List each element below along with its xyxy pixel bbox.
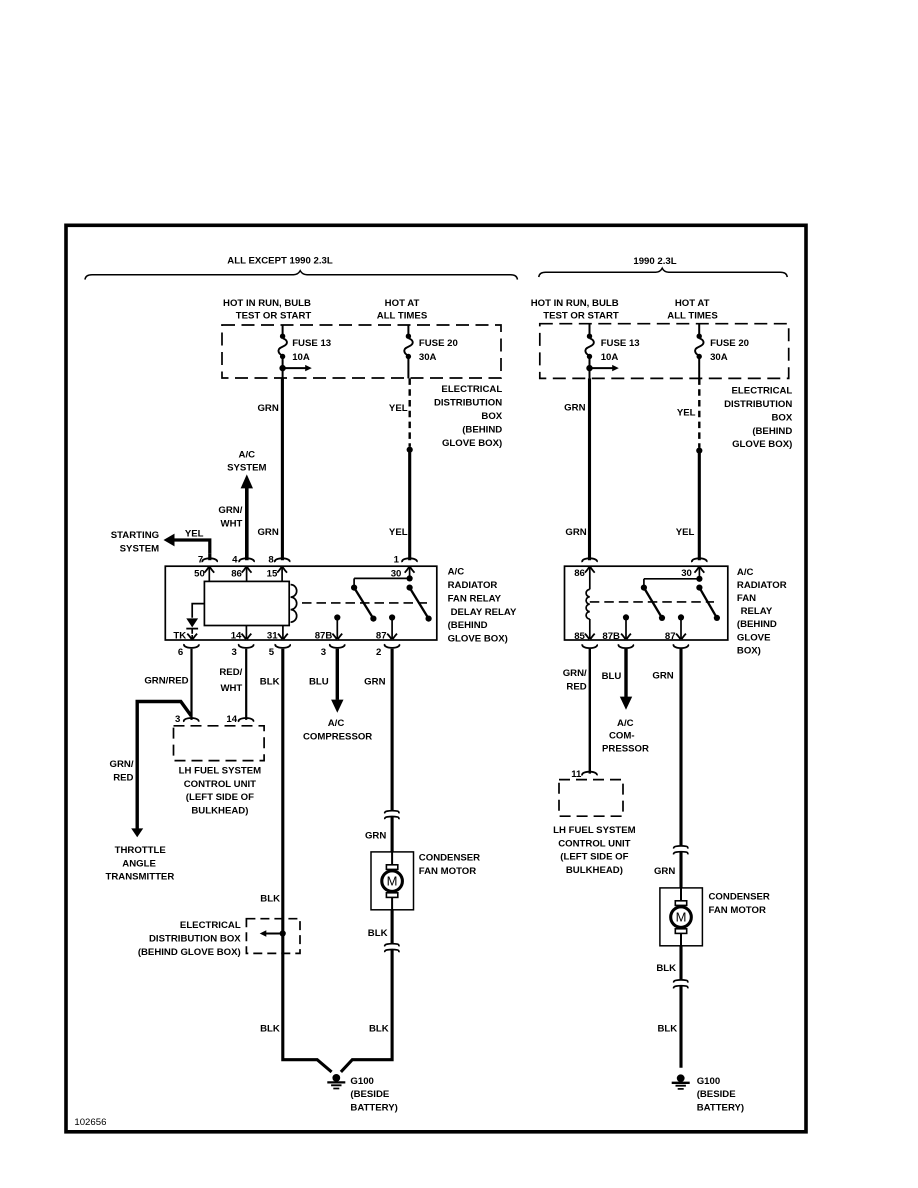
wire: fuse 20 to box edge (right) bbox=[698, 357, 700, 379]
relay coil windings (left relay) bbox=[291, 585, 297, 623]
switch blade 1 end node (right relay) bbox=[659, 615, 665, 621]
wire GRN: fuse 13 to relay pin 86 (right) bbox=[588, 378, 591, 560]
svg-text:BLK: BLK bbox=[369, 1023, 389, 1034]
svg-text:M: M bbox=[676, 910, 687, 925]
svg-text:GRN: GRN bbox=[365, 831, 386, 842]
svg-text:8: 8 bbox=[268, 554, 274, 565]
connector pin 8 (left relay) bbox=[275, 558, 290, 562]
svg-text:ELECTRICAL: ELECTRICAL bbox=[441, 384, 502, 395]
svg-text:30A: 30A bbox=[419, 352, 437, 363]
svg-text:(BEHIND: (BEHIND bbox=[462, 424, 502, 435]
label: FUSE 20 30A (right) bbox=[710, 338, 749, 363]
wire BLK: motor to connector (right) bbox=[679, 946, 682, 980]
wire: junction to box edge (left) bbox=[282, 368, 284, 378]
svg-text:BLK: BLK bbox=[657, 1023, 677, 1034]
svg-text:FUSE 13: FUSE 13 bbox=[292, 338, 331, 349]
svg-text:86: 86 bbox=[231, 569, 242, 580]
wire tap arrow at fuse 13 (left) bbox=[283, 365, 312, 371]
svg-text:HOT IN RUN, BULB: HOT IN RUN, BULB bbox=[531, 298, 619, 309]
wire: feed into fuse 20 (right) bbox=[698, 324, 700, 336]
fuse FUSE 20 30A (right) bbox=[695, 334, 703, 360]
svg-text:A/C: A/C bbox=[737, 567, 754, 578]
splice: YEL wire (right) bbox=[696, 448, 702, 454]
inline connector on GRN wire (left) bbox=[385, 811, 399, 820]
svg-text:GRN/RED: GRN/RED bbox=[144, 676, 188, 687]
connector pin 3 (below left relay, 87B) bbox=[330, 644, 345, 648]
svg-text:5: 5 bbox=[269, 647, 275, 658]
svg-text:M: M bbox=[387, 874, 398, 889]
svg-text:SYSTEM: SYSTEM bbox=[227, 463, 266, 474]
pin 50 arrow (left relay) bbox=[204, 567, 214, 581]
svg-text:GRN: GRN bbox=[364, 676, 385, 687]
svg-text:7: 7 bbox=[198, 554, 203, 565]
svg-text:BLK: BLK bbox=[656, 963, 676, 974]
label: G100 (BESIDE BATTERY) (right) bbox=[697, 1076, 744, 1114]
wire GRN/RED: pin 85 to control unit (right) bbox=[589, 649, 591, 774]
connector pin 2 (below left relay) bbox=[385, 644, 400, 648]
pin 87 arrow (right relay) bbox=[676, 617, 686, 639]
svg-text:DELAY RELAY: DELAY RELAY bbox=[451, 607, 517, 618]
connector below pin 87 (right relay) bbox=[674, 644, 689, 648]
svg-text:BULKHEAD): BULKHEAD) bbox=[566, 865, 623, 876]
relay coil box (left relay) bbox=[204, 581, 289, 625]
svg-text:A/C: A/C bbox=[617, 718, 634, 729]
svg-text:A/C: A/C bbox=[239, 449, 256, 460]
svg-text:SYSTEM: SYSTEM bbox=[120, 544, 159, 555]
switch blade 2 end node bbox=[426, 616, 432, 622]
switch contact node (right relay, blade 2 top) bbox=[696, 585, 702, 591]
svg-text:RED/: RED/ bbox=[219, 667, 242, 678]
label: GRN/ RED (left branch) bbox=[110, 759, 134, 784]
pin 30 arrow (right relay) bbox=[695, 567, 705, 579]
junction on pin 30 wire (left relay) bbox=[407, 575, 413, 581]
wire BLU arrow to A/C compressor (right) bbox=[620, 649, 632, 710]
svg-text:14: 14 bbox=[226, 714, 237, 725]
svg-text:GRN: GRN bbox=[257, 403, 278, 414]
switch contact node (left relay, blade 1 top) bbox=[351, 585, 357, 591]
switch blade 1 (right relay) bbox=[644, 588, 662, 618]
svg-text:GRN/: GRN/ bbox=[218, 505, 242, 516]
wire YEL: splice to relay pin 1 (left) bbox=[408, 450, 411, 561]
svg-text:85: 85 bbox=[574, 631, 585, 642]
fuse FUSE 20 30A (left) bbox=[404, 334, 412, 360]
LH fuel system control unit box (left, dashed) bbox=[174, 726, 265, 761]
svg-text:DISTRIBUTION: DISTRIBUTION bbox=[434, 398, 502, 409]
svg-text:50: 50 bbox=[194, 569, 205, 580]
splice: YEL wire (left) bbox=[407, 447, 413, 453]
svg-text:G100: G100 bbox=[350, 1076, 373, 1087]
arrow wire GRN/WHT to A/C system (left) bbox=[241, 474, 253, 560]
node label: HOT AT ALL TIMES (right) bbox=[667, 298, 718, 322]
svg-text:TEST OR START: TEST OR START bbox=[543, 311, 619, 322]
junction in lower distribution box (left) bbox=[280, 930, 286, 936]
wire YEL dashed: fuse 20 down (left) bbox=[409, 378, 411, 446]
svg-text:1990 2.3L: 1990 2.3L bbox=[633, 256, 676, 267]
electrical distribution box (left lower, dashed) bbox=[246, 919, 300, 954]
label: THROTTLE ANGLE TRANSMITTER bbox=[106, 845, 175, 883]
label: A/C COMPRESSOR (left) bbox=[303, 718, 372, 742]
connector pin 3 (LH control unit left) bbox=[184, 718, 199, 722]
svg-text:FAN RELAY: FAN RELAY bbox=[448, 593, 502, 604]
svg-text:FUSE 20: FUSE 20 bbox=[419, 338, 458, 349]
connector pin 5 (below left relay) bbox=[275, 644, 290, 648]
svg-text:FUSE 13: FUSE 13 bbox=[601, 338, 640, 349]
svg-text:11: 11 bbox=[571, 769, 582, 780]
svg-text:ELECTRICAL: ELECTRICAL bbox=[732, 386, 793, 397]
label: ELECTRICAL DISTRIBUTION BOX (BEHIND GLOVE BOX) (right) bbox=[724, 386, 793, 451]
wire BLK: connector to ground (right) bbox=[679, 986, 682, 1068]
wire GRN/RED branch to throttle angle transmitter (left) bbox=[131, 702, 191, 838]
svg-text:2: 2 bbox=[376, 647, 381, 658]
svg-text:1: 1 bbox=[394, 554, 400, 565]
relay coil (right relay) bbox=[586, 589, 590, 619]
svg-text:A/C: A/C bbox=[448, 567, 465, 578]
svg-text:GRN/: GRN/ bbox=[110, 759, 134, 770]
svg-text:DISTRIBUTION: DISTRIBUTION bbox=[724, 399, 792, 410]
wire GRN: connector to motor (left) bbox=[391, 817, 394, 852]
svg-text:GLOVE BOX): GLOVE BOX) bbox=[442, 438, 502, 449]
svg-text:(BEHIND GLOVE BOX): (BEHIND GLOVE BOX) bbox=[138, 947, 241, 958]
svg-text:3: 3 bbox=[175, 714, 180, 725]
svg-text:CONTROL UNIT: CONTROL UNIT bbox=[184, 779, 256, 790]
bracket: left diagram brace bbox=[85, 271, 517, 280]
ground G100 (left) bbox=[327, 1074, 345, 1089]
wire BLK: connector to ground elbow (left) bbox=[341, 950, 392, 1072]
svg-text:PRESSOR: PRESSOR bbox=[602, 743, 649, 754]
inline connector on GRN wire (right) bbox=[674, 846, 688, 855]
svg-text:(BEHIND: (BEHIND bbox=[737, 619, 777, 630]
svg-text:GLOVE BOX): GLOVE BOX) bbox=[732, 439, 792, 450]
svg-text:CONDENSER: CONDENSER bbox=[419, 853, 480, 864]
svg-text:RED: RED bbox=[566, 681, 586, 692]
svg-text:BLU: BLU bbox=[602, 671, 622, 682]
label: A/C COM- PRESSOR (right) bbox=[602, 718, 649, 754]
svg-text:HOT AT: HOT AT bbox=[675, 298, 710, 309]
svg-text:COMPRESSOR: COMPRESSOR bbox=[303, 731, 372, 742]
node label: HOT AT ALL TIMES (left) bbox=[377, 298, 428, 322]
contact 87 node (right relay) bbox=[678, 614, 684, 620]
svg-text:BATTERY): BATTERY) bbox=[350, 1103, 397, 1114]
svg-text:BLK: BLK bbox=[368, 928, 388, 939]
svg-text:FUSE 20: FUSE 20 bbox=[710, 338, 749, 349]
svg-text:30: 30 bbox=[681, 568, 692, 579]
svg-text:87B: 87B bbox=[602, 631, 620, 642]
contact 87B node (right relay) bbox=[623, 614, 629, 620]
junction: fuse 13 output (left) bbox=[279, 365, 285, 371]
wire: junction to box edge (right) bbox=[589, 368, 591, 378]
svg-text:WHT: WHT bbox=[221, 519, 243, 530]
svg-text:ALL EXCEPT 1990 2.3L: ALL EXCEPT 1990 2.3L bbox=[227, 255, 333, 266]
svg-text:3: 3 bbox=[321, 647, 326, 658]
label: GRN/ RED (right) bbox=[563, 668, 587, 693]
svg-text:THROTTLE: THROTTLE bbox=[115, 845, 167, 856]
wire tap arrow at fuse 13 (right) bbox=[590, 365, 619, 371]
inline connector on BLK wire (right) bbox=[674, 980, 688, 989]
inline connector on BLK wire (left) bbox=[385, 944, 399, 953]
svg-text:6: 6 bbox=[178, 647, 183, 658]
wire: switch feed bar (right relay) bbox=[644, 579, 700, 586]
connector pin 4 (left relay) bbox=[239, 558, 254, 562]
svg-text:GRN: GRN bbox=[564, 403, 585, 414]
svg-text:YEL: YEL bbox=[389, 527, 408, 538]
wire GRN: connector to motor (right) bbox=[679, 852, 682, 888]
bracket: right diagram brace bbox=[539, 268, 787, 277]
label: ELECTRICAL DISTRIBUTION BOX (BEHIND GLOVE BOX) (left) bbox=[434, 384, 503, 449]
wire GRN/RED: pin 6 to control unit (left) bbox=[190, 649, 192, 720]
contact 87 node (left relay) bbox=[389, 614, 395, 620]
svg-text:YEL: YEL bbox=[677, 408, 696, 419]
svg-text:GRN/: GRN/ bbox=[563, 668, 587, 679]
svg-text:BOX: BOX bbox=[481, 411, 502, 422]
svg-text:87: 87 bbox=[376, 631, 387, 642]
fuse FUSE 13 10A (left) bbox=[278, 334, 286, 360]
switch blade 2 (left relay) bbox=[410, 588, 429, 619]
node label: HOT IN RUN, BULB TEST OR START (left) bbox=[223, 298, 311, 322]
svg-text:GLOVE BOX): GLOVE BOX) bbox=[448, 634, 508, 645]
label: CONDENSER FAN MOTOR (left) bbox=[419, 853, 480, 877]
wire GRN: pin 2 down to connector (left) bbox=[391, 649, 394, 811]
svg-text:CONDENSER: CONDENSER bbox=[709, 892, 770, 903]
svg-text:YEL: YEL bbox=[389, 403, 408, 414]
relay K-left: A/C radiator fan relay delay relay box bbox=[165, 566, 437, 640]
svg-text:CONTROL UNIT: CONTROL UNIT bbox=[558, 838, 630, 849]
connector pin 6 (below left relay) bbox=[184, 644, 199, 648]
label: CONDENSER FAN MOTOR (right) bbox=[709, 892, 770, 916]
node label: HOT IN RUN, BULB TEST OR START (right) bbox=[531, 298, 619, 322]
pin 15 arrow (left relay) bbox=[277, 567, 287, 581]
junction on pin 30 wire (right relay) bbox=[696, 576, 702, 582]
connector pin 11 (LH control unit right) bbox=[582, 772, 597, 776]
svg-text:BLU: BLU bbox=[309, 676, 329, 687]
label: A/C SYSTEM (left) bbox=[227, 449, 266, 473]
svg-text:RADIATOR: RADIATOR bbox=[448, 580, 498, 591]
switch contact node (right relay, blade 1 top) bbox=[641, 585, 647, 591]
junction: fuse 13 output (right) bbox=[586, 365, 592, 371]
svg-text:(BEHIND: (BEHIND bbox=[752, 426, 792, 437]
connector at pin 86 (right relay) bbox=[582, 558, 597, 562]
wire BLK: pin 5 down to ground elbow (left) bbox=[283, 649, 332, 1072]
svg-text:GRN: GRN bbox=[654, 866, 675, 877]
label: A/C RADIATOR FAN RELAY (BEHIND GLOVE BOX) (right) bbox=[737, 567, 787, 656]
LH fuel system control unit box (right, dashed) bbox=[559, 780, 623, 817]
svg-text:ELECTRICAL: ELECTRICAL bbox=[180, 920, 241, 931]
svg-text:15: 15 bbox=[267, 569, 278, 580]
wire: switch feed bar (left relay) bbox=[354, 578, 410, 585]
label: G100 (BESIDE BATTERY) (left) bbox=[350, 1076, 397, 1114]
connector pin 7 (left relay) bbox=[202, 558, 217, 562]
connector pin 3 (below left relay) bbox=[239, 644, 254, 648]
svg-text:BOX: BOX bbox=[772, 412, 793, 423]
label: GRN/ WHT (left) bbox=[218, 505, 242, 529]
label: FUSE 13 10A (left) bbox=[292, 338, 331, 363]
svg-text:RED: RED bbox=[113, 772, 133, 783]
label: LH FUEL SYSTEM CONTROL UNIT (LEFT SIDE OF BULKHEAD) (left) bbox=[179, 765, 261, 816]
svg-text:10A: 10A bbox=[601, 352, 619, 363]
switch blade 1 (left relay) bbox=[354, 588, 373, 619]
contact 87B node (left relay) bbox=[334, 614, 340, 620]
svg-text:RADIATOR: RADIATOR bbox=[737, 580, 787, 591]
svg-text:BLK: BLK bbox=[260, 1023, 280, 1034]
label: FUSE 13 10A (right) bbox=[601, 338, 640, 363]
svg-text:102656: 102656 bbox=[74, 1117, 106, 1128]
svg-text:BOX): BOX) bbox=[737, 645, 761, 656]
wire: coil to diode (left relay) bbox=[192, 604, 204, 618]
pin 85 arrow (right relay) bbox=[585, 619, 595, 639]
svg-text:G100: G100 bbox=[697, 1076, 720, 1087]
wire BLK: motor to connector (left) bbox=[391, 910, 394, 943]
svg-text:TK: TK bbox=[173, 631, 186, 642]
svg-text:BLK: BLK bbox=[260, 676, 280, 687]
wire BLU arrow to A/C compressor (left) bbox=[331, 649, 343, 713]
svg-text:86: 86 bbox=[574, 568, 585, 579]
pin 86 arrow (left relay) bbox=[242, 567, 252, 581]
wire: feed into fuse 13 (left) bbox=[282, 325, 284, 336]
fuse FUSE 13 10A (right) bbox=[585, 334, 593, 360]
svg-text:(LEFT SIDE OF: (LEFT SIDE OF bbox=[560, 852, 628, 863]
svg-text:87: 87 bbox=[665, 631, 676, 642]
svg-text:HOT IN RUN, BULB: HOT IN RUN, BULB bbox=[223, 298, 311, 309]
connector pin 1 (left relay) bbox=[402, 558, 417, 562]
wire GRN: fuse 13 to relay pin 8 (left) bbox=[281, 378, 284, 560]
label: FUSE 20 30A (left) bbox=[419, 338, 458, 363]
svg-text:30A: 30A bbox=[710, 352, 728, 363]
svg-text:HOT AT: HOT AT bbox=[385, 298, 420, 309]
wire: feed into fuse 20 (left) bbox=[407, 325, 409, 336]
svg-text:FAN MOTOR: FAN MOTOR bbox=[419, 866, 476, 877]
label: STARTING SYSTEM (left) bbox=[111, 530, 159, 554]
svg-text:RELAY: RELAY bbox=[741, 606, 773, 617]
svg-text:LH FUEL SYSTEM: LH FUEL SYSTEM bbox=[179, 765, 261, 776]
motor M: condenser fan motor (left) bbox=[371, 852, 414, 910]
wire: fuse 20 to box edge (left) bbox=[407, 357, 409, 379]
connector pin 14 (LH control unit left) bbox=[239, 718, 254, 722]
svg-text:A/C: A/C bbox=[328, 718, 345, 729]
svg-text:(LEFT SIDE OF: (LEFT SIDE OF bbox=[186, 792, 254, 803]
svg-text:TEST OR START: TEST OR START bbox=[236, 311, 312, 322]
arrow tap in lower distribution box (left) bbox=[260, 930, 283, 937]
svg-text:BULKHEAD): BULKHEAD) bbox=[191, 806, 248, 817]
svg-text:TRANSMITTER: TRANSMITTER bbox=[106, 872, 175, 883]
svg-text:DISTRIBUTION BOX: DISTRIBUTION BOX bbox=[149, 934, 241, 945]
svg-text:YEL: YEL bbox=[185, 528, 204, 539]
svg-text:ANGLE: ANGLE bbox=[122, 858, 156, 869]
wire YEL: splice to relay pin 30 (right) bbox=[698, 451, 701, 561]
wire: fuse 13 to junction (right) bbox=[589, 357, 591, 369]
svg-text:YEL: YEL bbox=[676, 527, 695, 538]
svg-text:87B: 87B bbox=[315, 631, 333, 642]
svg-text:3: 3 bbox=[232, 647, 237, 658]
svg-text:(BESIDE: (BESIDE bbox=[350, 1089, 390, 1100]
svg-text:(BESIDE: (BESIDE bbox=[697, 1089, 737, 1100]
pin 87 arrow (left relay) bbox=[387, 618, 397, 640]
switch blade 2 (right relay) bbox=[699, 588, 717, 618]
connector below pin 85 (right relay) bbox=[582, 644, 597, 648]
wire: fuse 13 to junction (left) bbox=[282, 357, 284, 369]
svg-text:BLK: BLK bbox=[260, 894, 280, 905]
svg-text:4: 4 bbox=[232, 554, 238, 565]
svg-text:FAN: FAN bbox=[737, 593, 756, 604]
wire YEL dashed: fuse 20 down (right) bbox=[698, 378, 700, 447]
svg-text:LH FUEL SYSTEM: LH FUEL SYSTEM bbox=[553, 825, 635, 836]
svg-text:COM-: COM- bbox=[609, 731, 635, 742]
label: A/C RADIATOR FAN RELAY DELAY RELAY (BEHIND GLOVE BOX) bbox=[448, 567, 517, 645]
svg-text:31: 31 bbox=[267, 631, 278, 642]
connector at pin 30 (right relay) bbox=[692, 558, 707, 562]
svg-text:WHT: WHT bbox=[220, 683, 242, 694]
switch blade 2 end node (right relay) bbox=[714, 615, 720, 621]
arrow wire YEL to starting system from pin 7 (left) bbox=[164, 534, 210, 561]
svg-text:ALL TIMES: ALL TIMES bbox=[667, 311, 718, 322]
switch blade 1 end node bbox=[370, 616, 376, 622]
pin 30 arrow (left relay) bbox=[405, 567, 415, 578]
svg-text:10A: 10A bbox=[292, 352, 310, 363]
svg-text:GRN: GRN bbox=[652, 670, 673, 681]
label: LH FUEL SYSTEM CONTROL UNIT (LEFT SIDE OF BULKHEAD) (right) bbox=[553, 825, 635, 876]
connector below pin 87B (right relay) bbox=[619, 644, 634, 648]
label: ELECTRICAL DISTRIBUTION BOX (BEHIND GLOVE BOX) (left lower) bbox=[138, 920, 241, 958]
svg-text:FAN MOTOR: FAN MOTOR bbox=[709, 905, 766, 916]
dashed actuation link (left relay) bbox=[302, 602, 427, 604]
switch contact node (left relay, blade 2 top) bbox=[407, 585, 413, 591]
relay K-right: A/C radiator fan relay box bbox=[565, 566, 728, 640]
svg-text:GRN: GRN bbox=[565, 527, 586, 538]
svg-text:GRN: GRN bbox=[257, 527, 278, 538]
electrical distribution box (left, dashed) bbox=[222, 325, 501, 378]
diode (left relay) bbox=[186, 618, 198, 628]
pin 14 arrow (left relay) bbox=[242, 626, 252, 640]
svg-text:BATTERY): BATTERY) bbox=[697, 1103, 744, 1114]
wire GRN: pin 87 down to connector (right) bbox=[679, 649, 682, 846]
ground G100 (right) bbox=[672, 1074, 690, 1089]
pin 87B arrow (left relay) bbox=[332, 618, 342, 640]
label: RED/ WHT (left) bbox=[219, 667, 242, 694]
svg-text:STARTING: STARTING bbox=[111, 530, 159, 541]
pin 86 arrow (right relay) bbox=[585, 567, 595, 589]
motor M: condenser fan motor (right) bbox=[660, 888, 703, 946]
pin 31 arrow (left relay) bbox=[278, 626, 288, 640]
electrical distribution box (right, dashed) bbox=[540, 324, 789, 379]
pin 87B arrow (right relay) bbox=[621, 617, 631, 639]
wire RED/WHT: pin 3 to control unit pin 14 (left) bbox=[245, 649, 247, 720]
svg-text:(BEHIND: (BEHIND bbox=[448, 620, 488, 631]
dashed actuation link (right relay) bbox=[590, 601, 714, 603]
wire: feed into fuse 13 (right) bbox=[589, 324, 591, 336]
svg-text:14: 14 bbox=[231, 631, 242, 642]
svg-text:ALL TIMES: ALL TIMES bbox=[377, 311, 428, 322]
svg-text:GLOVE: GLOVE bbox=[737, 632, 771, 643]
pin TK arrow (left relay) bbox=[187, 629, 197, 640]
